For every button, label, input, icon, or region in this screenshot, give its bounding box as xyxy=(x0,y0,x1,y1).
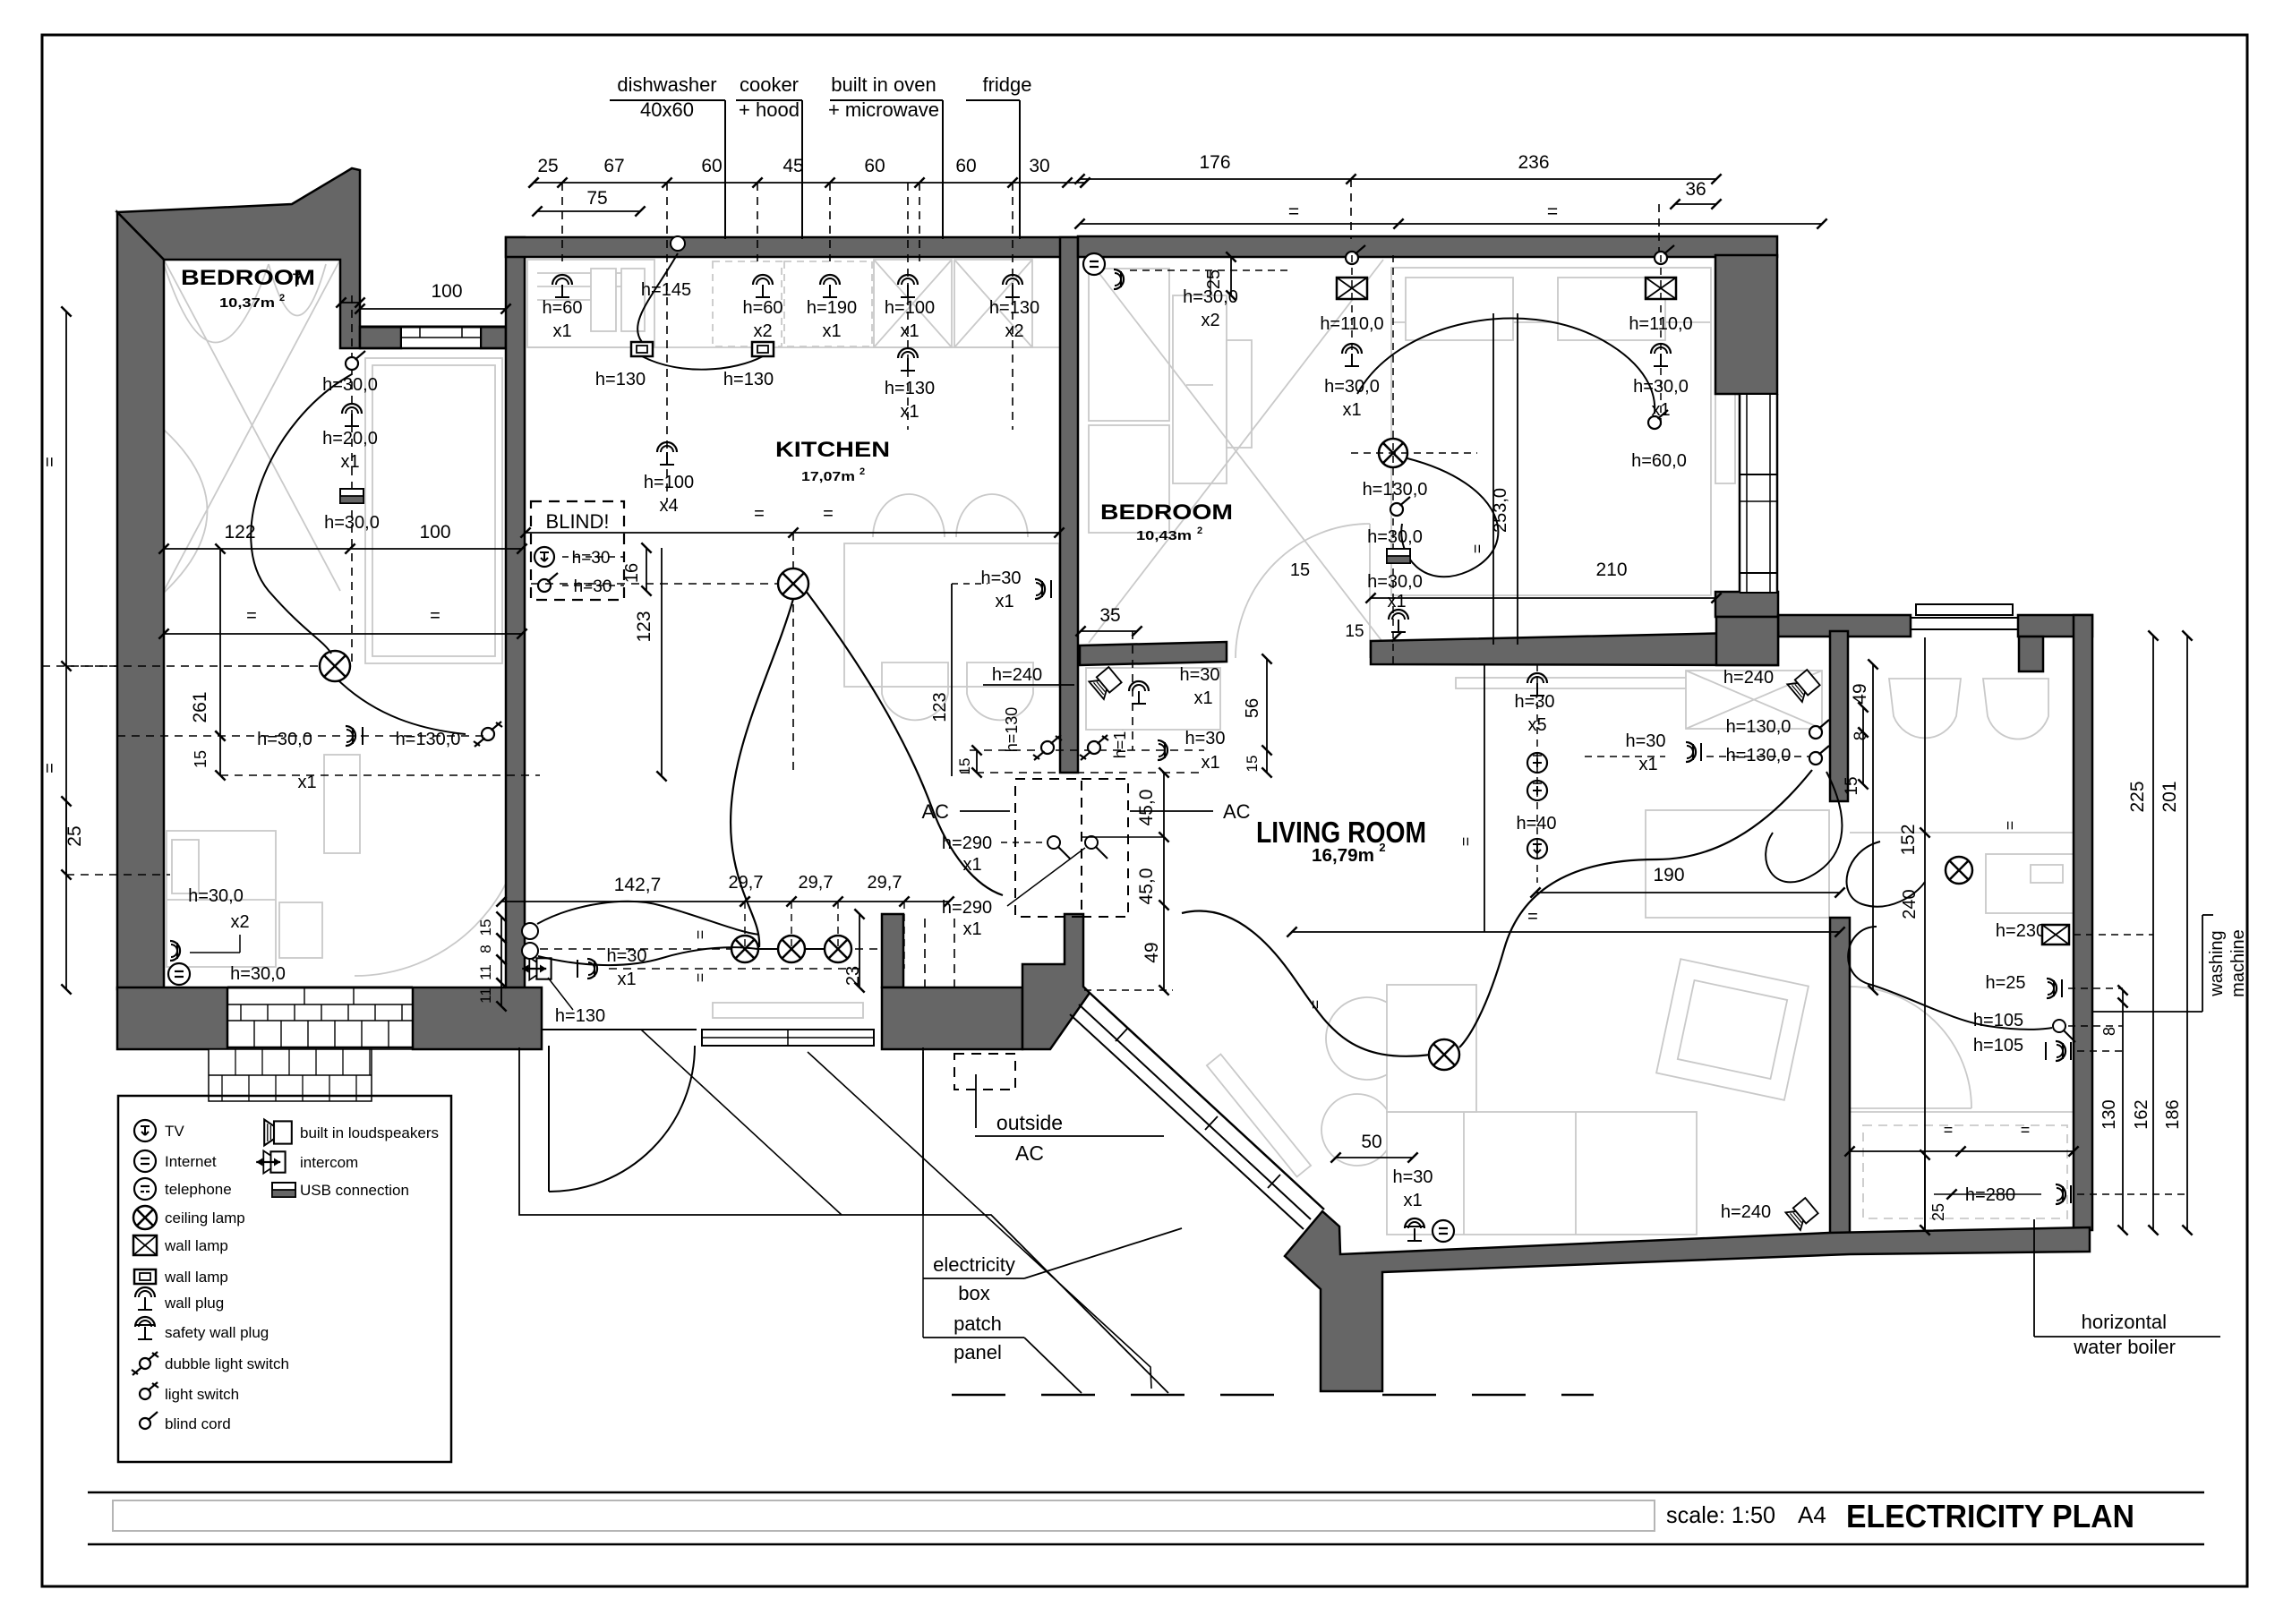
svg-text:light switch: light switch xyxy=(165,1386,239,1403)
svg-text:h=130,0: h=130,0 xyxy=(1363,480,1428,500)
svg-text:h=100: h=100 xyxy=(885,298,935,318)
svg-text:201: 201 xyxy=(2159,781,2180,812)
svg-text:h=30: h=30 xyxy=(1392,1167,1432,1187)
svg-text:BEDROOM: BEDROOM xyxy=(1100,500,1233,525)
svg-text:AC: AC xyxy=(921,800,949,823)
svg-text:h=30,0: h=30,0 xyxy=(230,964,286,984)
svg-text:USB connection: USB connection xyxy=(300,1182,409,1199)
svg-text:11: 11 xyxy=(477,964,494,980)
svg-text:8: 8 xyxy=(2100,1027,2118,1036)
svg-text:123: 123 xyxy=(634,611,654,642)
svg-text:35: 35 xyxy=(1099,605,1120,626)
svg-text:=: = xyxy=(1288,201,1299,222)
svg-text:+ hood: + hood xyxy=(739,98,800,121)
svg-text:panel: panel xyxy=(954,1341,1002,1363)
svg-text:190: 190 xyxy=(1653,865,1684,885)
svg-text:h=30: h=30 xyxy=(1179,665,1219,685)
svg-text:h=30,0: h=30,0 xyxy=(1324,377,1380,397)
svg-text:h=240: h=240 xyxy=(1723,668,1774,688)
svg-text:15: 15 xyxy=(1843,776,1861,795)
svg-text:7: 7 xyxy=(292,270,303,291)
svg-text:=: = xyxy=(754,504,765,524)
svg-text:h=30: h=30 xyxy=(574,577,612,596)
svg-text:=: = xyxy=(1468,544,1486,554)
svg-text:16,79m: 16,79m xyxy=(1312,846,1374,866)
svg-text:=: = xyxy=(40,763,60,774)
svg-text:blind cord: blind cord xyxy=(165,1415,231,1432)
svg-text:45,0: 45,0 xyxy=(1136,790,1157,826)
svg-text:h=30: h=30 xyxy=(1625,731,1665,751)
svg-text:h=30,0: h=30,0 xyxy=(322,375,378,395)
svg-text:h=60: h=60 xyxy=(742,298,783,318)
svg-text:11: 11 xyxy=(477,987,494,1004)
svg-text:56: 56 xyxy=(1243,698,1262,718)
svg-text:x1: x1 xyxy=(1403,1191,1422,1210)
svg-text:ELECTRICITY PLAN: ELECTRICITY PLAN xyxy=(1846,1498,2134,1534)
svg-text:h=60: h=60 xyxy=(542,298,582,318)
svg-text:162: 162 xyxy=(2132,1099,2151,1129)
svg-text:fridge: fridge xyxy=(982,73,1031,96)
svg-text:built in oven: built in oven xyxy=(831,73,936,96)
svg-text:h=100: h=100 xyxy=(644,473,694,492)
svg-text:186: 186 xyxy=(2163,1099,2183,1129)
svg-text:h=30,0: h=30,0 xyxy=(188,886,244,906)
svg-text:210: 210 xyxy=(1595,560,1627,580)
svg-text:29,7: 29,7 xyxy=(729,873,764,893)
svg-text:25: 25 xyxy=(1929,1203,1947,1221)
svg-text:29,7: 29,7 xyxy=(799,873,834,893)
svg-text:25: 25 xyxy=(537,156,558,176)
svg-text:10,37m: 10,37m xyxy=(219,295,275,311)
svg-text:x1: x1 xyxy=(962,919,981,939)
svg-text:scale: 1:50: scale: 1:50 xyxy=(1666,1501,1775,1528)
svg-text:dishwasher: dishwasher xyxy=(617,73,716,96)
svg-text:15: 15 xyxy=(956,758,973,775)
svg-text:=: = xyxy=(823,504,834,524)
svg-text:176: 176 xyxy=(1199,152,1230,173)
svg-text:240: 240 xyxy=(1900,889,1920,919)
svg-text:50: 50 xyxy=(1361,1132,1381,1152)
svg-text:h=130: h=130 xyxy=(1003,707,1021,753)
svg-text:BLIND!: BLIND! xyxy=(546,510,610,533)
svg-text:2: 2 xyxy=(1197,526,1202,536)
svg-text:patch: patch xyxy=(954,1312,1002,1335)
svg-text:25: 25 xyxy=(1204,269,1224,289)
svg-text:h=30,0: h=30,0 xyxy=(1367,527,1423,547)
svg-text:washing: washing xyxy=(2207,930,2227,996)
svg-text:2: 2 xyxy=(1379,841,1385,854)
svg-text:15: 15 xyxy=(1290,560,1310,580)
svg-text:wall plug: wall plug xyxy=(164,1295,224,1312)
svg-text:h=130: h=130 xyxy=(885,379,935,398)
svg-text:60: 60 xyxy=(955,156,976,176)
svg-text:=: = xyxy=(246,606,257,626)
svg-text:15: 15 xyxy=(192,750,210,768)
svg-text:49: 49 xyxy=(1850,683,1870,704)
svg-text:built in loudspeakers: built in loudspeakers xyxy=(300,1124,439,1141)
svg-text:36: 36 xyxy=(1685,179,1706,200)
svg-text:wall lamp: wall lamp xyxy=(164,1237,228,1254)
svg-text:x1: x1 xyxy=(297,773,316,792)
svg-text:x1: x1 xyxy=(617,970,636,989)
svg-text:15: 15 xyxy=(1345,622,1364,641)
svg-text:60: 60 xyxy=(864,156,885,176)
svg-text:x1: x1 xyxy=(1342,400,1361,420)
svg-text:29,7: 29,7 xyxy=(868,873,902,893)
svg-text:h=25: h=25 xyxy=(1985,973,2025,993)
svg-text:h=30,0: h=30,0 xyxy=(324,513,380,533)
svg-text:h=130: h=130 xyxy=(555,1006,605,1026)
svg-text:x2: x2 xyxy=(230,912,249,932)
svg-text:h=145: h=145 xyxy=(641,280,691,300)
svg-text:x1: x1 xyxy=(1193,688,1212,708)
svg-text:=: = xyxy=(2001,821,2019,831)
svg-text:A4: A4 xyxy=(1798,1501,1826,1528)
svg-text:x1: x1 xyxy=(822,321,841,341)
svg-text:electricity: electricity xyxy=(933,1253,1015,1276)
svg-text:x1: x1 xyxy=(1201,753,1219,773)
svg-text:=: = xyxy=(2021,1121,2031,1139)
svg-text:15: 15 xyxy=(1244,756,1261,773)
svg-text:8: 8 xyxy=(477,944,494,953)
svg-text:=: = xyxy=(1457,837,1475,847)
svg-text:x2: x2 xyxy=(1201,311,1219,330)
svg-text:h=290: h=290 xyxy=(942,898,992,918)
svg-text:10,43m: 10,43m xyxy=(1136,528,1192,543)
svg-text:100: 100 xyxy=(419,522,450,543)
svg-text:h=290: h=290 xyxy=(942,833,992,853)
svg-text:LIVING ROOM: LIVING ROOM xyxy=(1256,816,1426,849)
svg-text:h=130,0: h=130,0 xyxy=(1726,746,1792,765)
svg-text:box: box xyxy=(958,1282,989,1304)
svg-text:Internet: Internet xyxy=(165,1153,217,1170)
svg-text:h=30: h=30 xyxy=(980,568,1021,588)
svg-text:123: 123 xyxy=(930,692,950,722)
svg-text:h=40: h=40 xyxy=(1516,814,1556,833)
svg-text:x2: x2 xyxy=(1005,321,1023,341)
svg-text:142,7: 142,7 xyxy=(614,875,662,895)
svg-text:x4: x4 xyxy=(659,496,678,516)
svg-text:=: = xyxy=(40,457,60,467)
svg-text:x1: x1 xyxy=(900,321,919,341)
svg-text:h=240: h=240 xyxy=(992,665,1042,685)
svg-text:telephone: telephone xyxy=(165,1181,232,1198)
svg-text:x2: x2 xyxy=(753,321,772,341)
svg-text:outside: outside xyxy=(996,1111,1063,1134)
svg-text:75: 75 xyxy=(586,188,607,209)
svg-text:h=30,0: h=30,0 xyxy=(1367,572,1423,592)
svg-text:236: 236 xyxy=(1518,152,1549,173)
svg-text:=: = xyxy=(430,606,440,626)
svg-text:=: = xyxy=(1527,907,1538,927)
svg-text:wall lamp: wall lamp xyxy=(164,1269,228,1286)
svg-text:x1: x1 xyxy=(340,452,359,472)
svg-text:x1: x1 xyxy=(962,855,981,875)
svg-text:h=30,0: h=30,0 xyxy=(1183,287,1238,307)
svg-text:130: 130 xyxy=(2100,1099,2119,1129)
svg-text:15: 15 xyxy=(477,919,494,936)
svg-text:17,07m: 17,07m xyxy=(801,469,855,484)
svg-text:40x60: 40x60 xyxy=(640,98,694,121)
svg-text:cooker: cooker xyxy=(740,73,799,96)
svg-text:horizontal: horizontal xyxy=(2082,1311,2167,1333)
svg-text:25: 25 xyxy=(64,825,85,846)
svg-text:machine: machine xyxy=(2228,929,2248,997)
svg-text:x1: x1 xyxy=(900,402,919,422)
svg-text:x1: x1 xyxy=(1638,755,1657,774)
svg-text:30: 30 xyxy=(1029,156,1049,176)
svg-text:=: = xyxy=(691,930,709,940)
svg-text:45,0: 45,0 xyxy=(1136,868,1157,905)
svg-text:h=60,0: h=60,0 xyxy=(1631,451,1687,471)
svg-text:2: 2 xyxy=(859,466,865,477)
svg-text:h=105: h=105 xyxy=(1973,1036,2023,1056)
svg-text:49: 49 xyxy=(1142,942,1162,962)
svg-text:h=130,0: h=130,0 xyxy=(396,730,461,749)
svg-text:152: 152 xyxy=(1898,824,1919,855)
svg-text:261: 261 xyxy=(190,691,210,722)
svg-text:KITCHEN: KITCHEN xyxy=(775,438,890,462)
svg-text:x1: x1 xyxy=(1387,592,1406,611)
svg-text:2: 2 xyxy=(279,293,285,303)
svg-text:h=130,0: h=130,0 xyxy=(1726,717,1792,737)
svg-text:+ microwave: + microwave xyxy=(828,98,939,121)
svg-text:ceiling lamp: ceiling lamp xyxy=(165,1209,245,1227)
svg-text:h=130: h=130 xyxy=(723,370,774,389)
svg-text:AC: AC xyxy=(1015,1141,1044,1165)
svg-text:h=30: h=30 xyxy=(1184,729,1225,748)
svg-text:x1: x1 xyxy=(552,321,571,341)
svg-text:dubble light switch: dubble light switch xyxy=(165,1355,289,1372)
svg-text:TV: TV xyxy=(165,1123,184,1140)
svg-text:67: 67 xyxy=(603,156,624,176)
svg-text:h=130: h=130 xyxy=(989,298,1039,318)
svg-text:h=30,0: h=30,0 xyxy=(257,730,312,749)
svg-text:=: = xyxy=(1547,201,1558,222)
svg-text:AC: AC xyxy=(1223,800,1251,823)
svg-text:60: 60 xyxy=(701,156,722,176)
svg-text:=: = xyxy=(1944,1121,1954,1139)
svg-text:x1: x1 xyxy=(995,592,1013,611)
svg-text:h=130: h=130 xyxy=(595,370,646,389)
svg-text:h=240: h=240 xyxy=(1721,1202,1771,1222)
svg-text:16: 16 xyxy=(622,563,642,583)
svg-text:h=30: h=30 xyxy=(572,549,611,568)
svg-text:h=230: h=230 xyxy=(1996,921,2046,941)
svg-text:h=20,0: h=20,0 xyxy=(322,429,378,449)
svg-text:safety wall plug: safety wall plug xyxy=(165,1324,269,1341)
svg-text:h=190: h=190 xyxy=(807,298,857,318)
svg-text:45: 45 xyxy=(783,156,803,176)
svg-text:intercom: intercom xyxy=(300,1154,358,1171)
svg-text:225: 225 xyxy=(2127,781,2148,812)
svg-text:100: 100 xyxy=(431,281,462,302)
svg-text:water boiler: water boiler xyxy=(2073,1336,2176,1358)
svg-text:=: = xyxy=(691,973,709,983)
svg-text:h=280: h=280 xyxy=(1965,1185,2015,1205)
